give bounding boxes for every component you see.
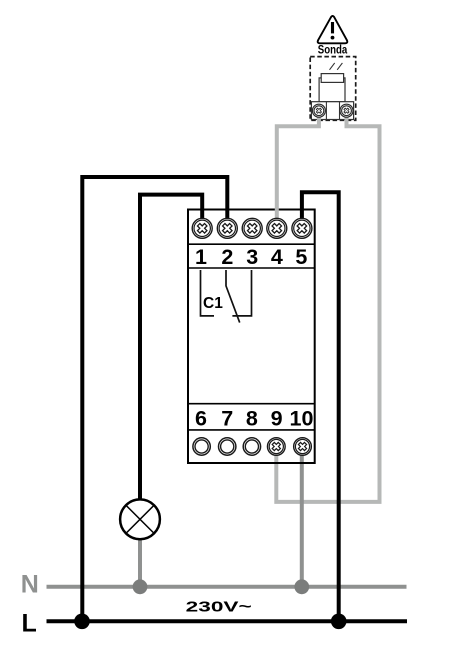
svg-text:4: 4 xyxy=(271,245,283,269)
wire: terminal 4 to probe left terminal xyxy=(277,112,319,218)
wire: neutral line N xyxy=(47,585,407,589)
lamp E1 xyxy=(120,499,160,539)
terminal 6 opening xyxy=(193,438,210,455)
relay contact C1 fixed side from terminal 1 xyxy=(201,270,215,316)
svg-text:230V~: 230V~ xyxy=(186,599,252,616)
probe dashed enclosure xyxy=(310,57,356,121)
svg-text:3: 3 xyxy=(246,245,258,269)
probe terminal block divider left xyxy=(325,102,327,120)
warning triangle xyxy=(318,16,348,43)
svg-text:8: 8 xyxy=(246,407,258,431)
wire: terminal 1 to lamp xyxy=(140,195,202,499)
screw terminal 4 xyxy=(267,218,287,238)
screw terminal 1 xyxy=(192,218,212,238)
svg-text:6: 6 xyxy=(195,407,207,431)
screw terminal 2 xyxy=(217,218,237,238)
wire: terminal 5 down right side to L xyxy=(302,192,339,621)
probe screw right xyxy=(340,104,353,117)
probe body xyxy=(319,78,345,102)
module divider below top screws xyxy=(188,243,315,245)
junction dot: lamp on N xyxy=(133,579,148,594)
screw terminal 5 xyxy=(292,218,312,238)
svg-text:N: N xyxy=(21,571,39,599)
wire: probe right terminal down right side to terminal 9 xyxy=(276,112,379,502)
probe terminal block divider right xyxy=(339,102,341,120)
module divider below top numbers xyxy=(188,267,315,269)
screw terminal 3 xyxy=(242,218,262,238)
wire: terminal 2 up over and down to L xyxy=(82,177,227,621)
wire: live line L xyxy=(47,619,408,623)
probe screw left xyxy=(312,104,325,117)
module bottom edge overdraw xyxy=(188,462,315,464)
relay contact C1 fixed side from terminal 3 xyxy=(232,270,251,316)
terminal 8 opening xyxy=(243,438,260,455)
svg-text:7: 7 xyxy=(221,407,233,431)
wire: lamp to neutral xyxy=(138,538,142,587)
svg-text:L: L xyxy=(22,609,37,637)
junction dot: terminal 10 wire on N xyxy=(294,579,309,594)
svg-text:2: 2 xyxy=(221,245,233,269)
svg-text:10: 10 xyxy=(290,407,314,431)
relay contact C1 common from terminal 2 with moving arm xyxy=(226,270,240,323)
svg-text:5: 5 xyxy=(295,245,307,269)
junction dot: terminal 5 wire on L xyxy=(331,614,347,630)
wire: terminal 10 to neutral xyxy=(300,452,304,587)
module U1 body xyxy=(188,210,315,464)
module divider above bottom numbers xyxy=(188,403,315,405)
junction dot: left wire on L xyxy=(74,614,90,630)
svg-text:C1: C1 xyxy=(203,295,223,312)
module divider below bottom numbers xyxy=(188,429,315,431)
probe hatch line 1 xyxy=(330,63,335,70)
probe terminal block xyxy=(311,102,353,120)
svg-text:9: 9 xyxy=(271,407,283,431)
probe top element xyxy=(321,74,343,83)
svg-text:Sonda: Sonda xyxy=(318,42,348,56)
svg-text:1: 1 xyxy=(195,245,207,269)
probe hatch line 2 xyxy=(337,63,342,70)
screw terminal 10 xyxy=(294,438,312,456)
screw terminal 9 xyxy=(267,438,285,456)
terminal 7 opening xyxy=(219,438,236,455)
